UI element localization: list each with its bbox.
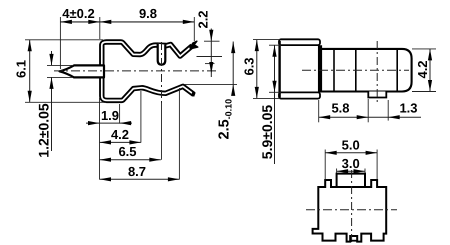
svg-text:5.0: 5.0: [342, 138, 360, 153]
svg-text:6.5: 6.5: [118, 144, 136, 159]
svg-text:5.9±0.05: 5.9±0.05: [259, 105, 275, 160]
svg-text:2.2: 2.2: [196, 10, 211, 28]
svg-text:9.8: 9.8: [139, 6, 157, 21]
svg-text:6.3: 6.3: [242, 57, 257, 75]
svg-text:4.2: 4.2: [415, 60, 430, 78]
svg-text:8.7: 8.7: [128, 164, 146, 179]
svg-text:4±0.2: 4±0.2: [62, 6, 94, 21]
svg-text:1.9: 1.9: [101, 108, 119, 123]
svg-text:4.2: 4.2: [111, 127, 129, 142]
svg-text:5.8: 5.8: [331, 101, 349, 116]
svg-text:1.3: 1.3: [399, 101, 417, 116]
svg-text:6.1: 6.1: [13, 60, 28, 78]
svg-text:3.0: 3.0: [342, 156, 360, 171]
svg-text:1.2±0.05: 1.2±0.05: [36, 103, 52, 158]
